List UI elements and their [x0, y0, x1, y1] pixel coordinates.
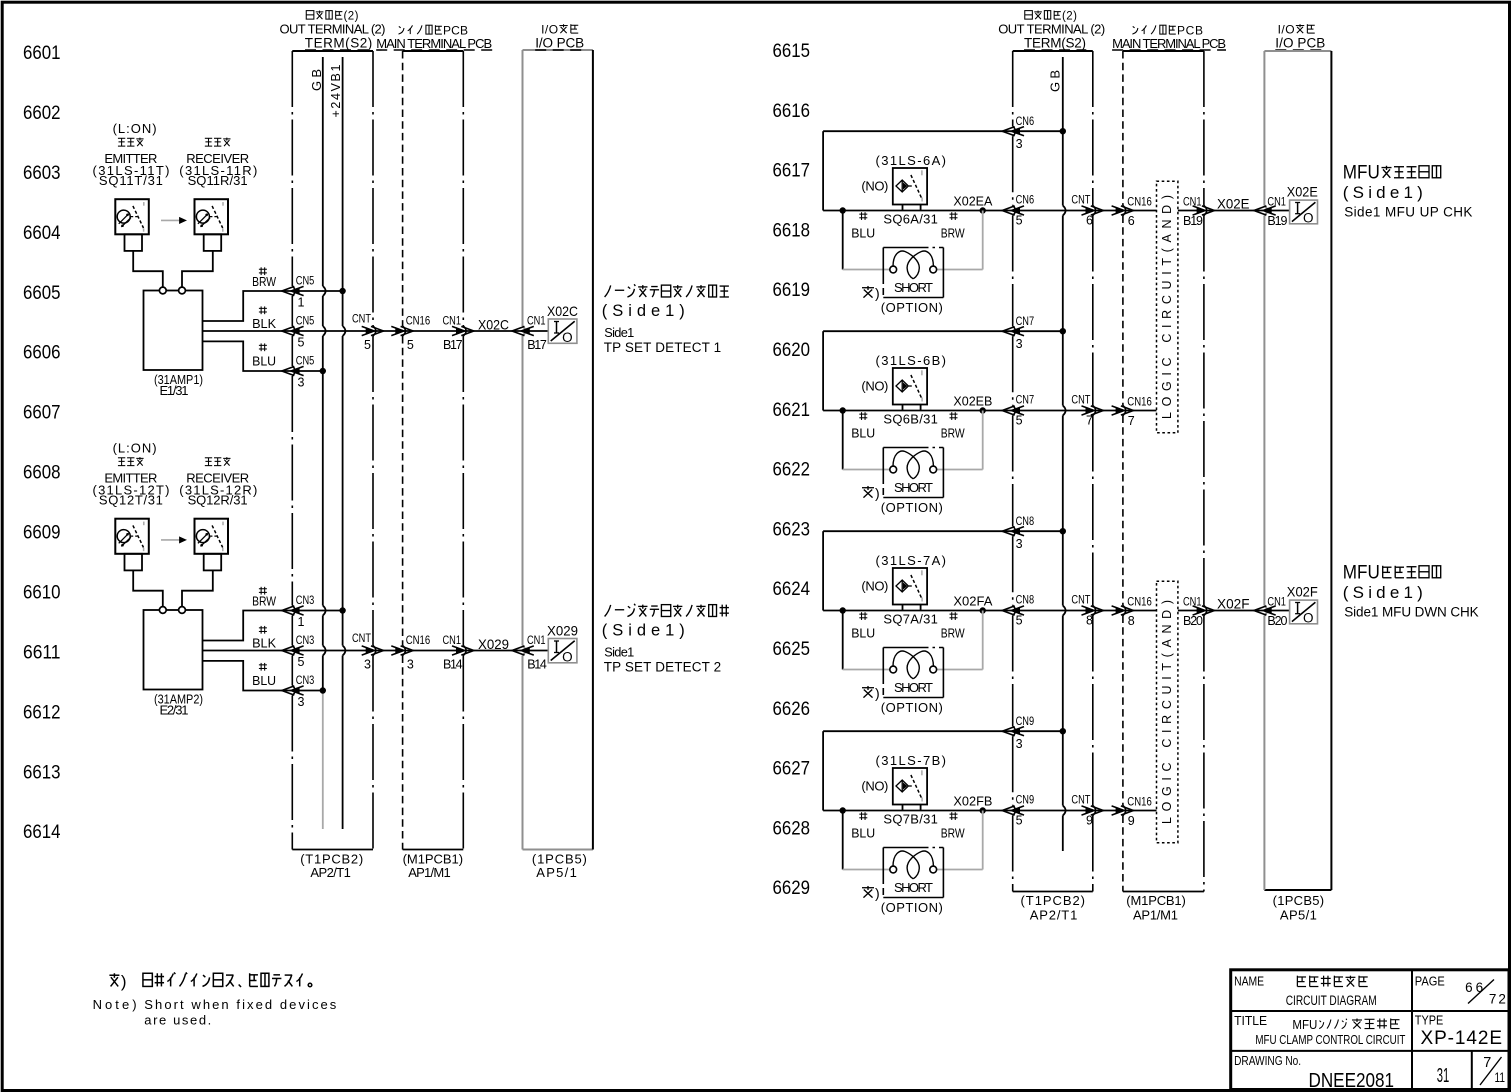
svg-text:SQ12T/31: SQ12T/31 — [99, 493, 163, 508]
svg-text:(31LS-6B): (31LS-6B) — [876, 353, 947, 368]
svg-text:CN16: CN16 — [1127, 195, 1152, 209]
svg-text:3: 3 — [298, 376, 305, 390]
svg-text:5: 5 — [407, 338, 414, 352]
svg-text:6622: 6622 — [773, 460, 811, 481]
svg-text:6618: 6618 — [773, 220, 811, 241]
svg-text:X02EB: X02EB — [953, 394, 992, 409]
svg-text:6616: 6616 — [773, 101, 811, 122]
svg-text:(Side1): (Side1) — [1343, 583, 1423, 602]
svg-text:Side1 MFU DWN CHK: Side1 MFU DWN CHK — [1344, 604, 1479, 619]
svg-text:7: 7 — [1483, 1055, 1491, 1071]
svg-text:SQ12R/31: SQ12R/31 — [188, 493, 248, 508]
svg-text:6615: 6615 — [773, 41, 811, 62]
svg-text:(OPTION): (OPTION) — [881, 900, 943, 915]
svg-text:5: 5 — [1016, 414, 1023, 428]
svg-text:B19: B19 — [1267, 214, 1287, 228]
svg-text:B17: B17 — [443, 338, 463, 352]
svg-text:6626: 6626 — [773, 699, 811, 720]
svg-text:NAME: NAME — [1234, 974, 1264, 988]
svg-text:3: 3 — [1016, 737, 1023, 751]
svg-text:): ) — [875, 485, 880, 501]
svg-text:MAIN TERMINAL PCB: MAIN TERMINAL PCB — [376, 36, 492, 51]
svg-text:BRW: BRW — [941, 625, 966, 640]
svg-text:CNT: CNT — [1071, 593, 1091, 607]
svg-text:X02FB: X02FB — [953, 794, 992, 809]
svg-text:B14: B14 — [443, 658, 463, 672]
svg-text:CN3: CN3 — [296, 673, 315, 687]
svg-text:(NO): (NO) — [861, 179, 888, 194]
svg-text:CN7: CN7 — [1016, 314, 1035, 328]
svg-text:B20: B20 — [1183, 614, 1203, 628]
svg-text:X02C: X02C — [547, 303, 578, 319]
svg-text:BLU: BLU — [851, 625, 875, 640]
svg-text:PAGE: PAGE — [1415, 974, 1445, 988]
svg-text:6605: 6605 — [23, 283, 61, 304]
svg-text:SHORT: SHORT — [894, 680, 933, 695]
svg-text:6617: 6617 — [773, 161, 811, 182]
svg-text:): ) — [875, 685, 880, 701]
svg-text:5: 5 — [298, 336, 305, 350]
svg-text:TITLE: TITLE — [1234, 1014, 1267, 1028]
svg-text:X02E: X02E — [1287, 184, 1318, 200]
svg-text:6604: 6604 — [23, 223, 61, 244]
svg-text:(L:ON): (L:ON) — [113, 121, 157, 136]
svg-text:MFU: MFU — [1343, 162, 1380, 183]
svg-text:6606: 6606 — [23, 343, 61, 364]
svg-text:SQ7B/31: SQ7B/31 — [883, 812, 938, 827]
svg-text:TYPE: TYPE — [1415, 1013, 1444, 1027]
svg-text:6625: 6625 — [773, 639, 811, 660]
svg-text:I/O PCB: I/O PCB — [1275, 36, 1325, 51]
svg-text:(M1PCB1): (M1PCB1) — [1126, 893, 1186, 908]
svg-text:OUT TERMINAL (2): OUT TERMINAL (2) — [998, 22, 1105, 37]
svg-text:MFU: MFU — [1343, 562, 1380, 583]
svg-text:CN16: CN16 — [1127, 795, 1152, 809]
svg-text:SQ6A/31: SQ6A/31 — [883, 212, 938, 227]
svg-text:3: 3 — [1016, 137, 1023, 151]
svg-text:SQ7A/31: SQ7A/31 — [883, 612, 938, 627]
svg-text:CN8: CN8 — [1016, 593, 1035, 607]
svg-text:BLU: BLU — [252, 673, 276, 688]
svg-text:B14: B14 — [527, 658, 547, 672]
svg-text:1: 1 — [298, 296, 305, 310]
svg-text:3: 3 — [407, 658, 414, 672]
svg-text:X029: X029 — [478, 636, 509, 652]
svg-text:BLU: BLU — [252, 354, 276, 369]
svg-text:MAIN TERMINAL PCB: MAIN TERMINAL PCB — [1112, 36, 1226, 51]
svg-text:6603: 6603 — [23, 163, 61, 184]
svg-text:CN7: CN7 — [1016, 393, 1035, 407]
svg-text:DNEE2081: DNEE2081 — [1309, 1070, 1395, 1092]
svg-text:CN5: CN5 — [296, 274, 315, 288]
svg-text:CN3: CN3 — [296, 593, 315, 607]
svg-text:AP1/M1: AP1/M1 — [1133, 907, 1178, 922]
svg-text:O: O — [1303, 610, 1314, 625]
svg-text:X02FA: X02FA — [953, 594, 992, 609]
svg-text:BRW: BRW — [252, 594, 277, 609]
svg-text:BLU: BLU — [851, 225, 875, 240]
svg-text:SHORT: SHORT — [894, 480, 933, 495]
svg-text:6614: 6614 — [23, 822, 61, 843]
svg-text:I/O PCB: I/O PCB — [535, 36, 584, 51]
svg-text:XP-142E: XP-142E — [1421, 1028, 1503, 1049]
svg-text:AP1/M1: AP1/M1 — [408, 865, 451, 880]
svg-text:6623: 6623 — [773, 519, 811, 540]
svg-text:6619: 6619 — [773, 280, 811, 301]
svg-text:SQ6B/31: SQ6B/31 — [883, 412, 938, 427]
svg-text:CN16: CN16 — [1127, 395, 1152, 409]
svg-text:AP5/1: AP5/1 — [536, 865, 577, 880]
svg-text:3: 3 — [1016, 537, 1023, 551]
svg-text:3: 3 — [1016, 337, 1023, 351]
svg-text:CN1: CN1 — [1183, 595, 1202, 609]
svg-text:B19: B19 — [1183, 214, 1203, 228]
svg-text:BRW: BRW — [941, 225, 966, 240]
svg-text:MFU: MFU — [1292, 1017, 1317, 1032]
svg-text:(31LS-7A): (31LS-7A) — [876, 553, 947, 568]
svg-text:5: 5 — [1016, 214, 1023, 228]
svg-text:6609: 6609 — [23, 523, 61, 544]
svg-text:5: 5 — [364, 338, 371, 352]
svg-text:CNT: CNT — [1071, 393, 1091, 407]
svg-text:CN1: CN1 — [1267, 195, 1286, 209]
svg-text:(OPTION): (OPTION) — [881, 700, 943, 715]
svg-text:X029: X029 — [547, 623, 578, 639]
svg-text:5: 5 — [1016, 814, 1023, 828]
svg-text:SQ11T/31: SQ11T/31 — [99, 173, 163, 188]
svg-text:6: 6 — [1086, 214, 1093, 228]
svg-text:CN3: CN3 — [296, 633, 315, 647]
svg-text:6601: 6601 — [23, 43, 61, 64]
svg-text:BLK: BLK — [252, 636, 276, 651]
svg-text:Side1: Side1 — [604, 645, 634, 660]
svg-text:DRAWING No.: DRAWING No. — [1234, 1054, 1301, 1068]
svg-text:9: 9 — [1128, 814, 1135, 828]
svg-text:SHORT: SHORT — [894, 880, 933, 895]
svg-text:6611: 6611 — [23, 642, 61, 663]
svg-text:CNT: CNT — [1071, 793, 1091, 807]
svg-text:(31LS-6A): (31LS-6A) — [876, 153, 947, 168]
svg-text:11: 11 — [1495, 1070, 1506, 1085]
svg-text:(Side1): (Side1) — [602, 622, 685, 640]
svg-text:BLU: BLU — [851, 425, 875, 440]
svg-text:): ) — [875, 285, 880, 301]
svg-text:(T1PCB2): (T1PCB2) — [1021, 893, 1086, 908]
svg-text:B20: B20 — [1267, 614, 1287, 628]
svg-text:AP2/T1: AP2/T1 — [310, 865, 351, 880]
svg-text:(Side1): (Side1) — [1343, 183, 1423, 202]
svg-text:1: 1 — [298, 615, 305, 629]
svg-text:6629: 6629 — [773, 878, 811, 899]
svg-text:72: 72 — [1489, 991, 1506, 1006]
svg-text:I/O: I/O — [1278, 23, 1295, 37]
svg-text:6621: 6621 — [773, 400, 811, 421]
svg-text:6608: 6608 — [23, 463, 61, 484]
svg-text:X02EA: X02EA — [953, 194, 992, 209]
svg-text:6: 6 — [1128, 214, 1135, 228]
svg-text:CN1: CN1 — [1267, 595, 1286, 609]
svg-text:): ) — [875, 885, 880, 901]
svg-text:X02E: X02E — [1217, 196, 1250, 212]
svg-text:CN16: CN16 — [406, 633, 431, 647]
svg-text:6602: 6602 — [23, 103, 61, 124]
svg-text:(31LS-7B): (31LS-7B) — [876, 753, 947, 768]
svg-text:BLU: BLU — [851, 825, 875, 840]
svg-text:(OPTION): (OPTION) — [881, 500, 943, 515]
svg-text:6628: 6628 — [773, 818, 811, 839]
svg-text:(NO): (NO) — [861, 379, 888, 394]
svg-text:6607: 6607 — [23, 403, 61, 424]
svg-text:(L:ON): (L:ON) — [113, 440, 157, 455]
svg-text:6613: 6613 — [23, 762, 61, 783]
svg-text:9: 9 — [1086, 814, 1093, 828]
svg-text:CN1: CN1 — [443, 633, 462, 647]
svg-text:MFU CLAMP CONTROL CIRCUIT: MFU CLAMP CONTROL CIRCUIT — [1255, 1032, 1405, 1047]
svg-text:O: O — [1303, 210, 1314, 225]
svg-text:O: O — [562, 650, 573, 665]
svg-text:CN9: CN9 — [1016, 714, 1035, 728]
svg-text:8: 8 — [1128, 614, 1135, 628]
svg-text:CN8: CN8 — [1016, 514, 1035, 528]
svg-text:Side1 MFU UP CHK: Side1 MFU UP CHK — [1344, 204, 1472, 219]
svg-text:(1PCB5): (1PCB5) — [1273, 893, 1325, 908]
svg-text:BRW: BRW — [252, 274, 277, 289]
svg-text:7: 7 — [1128, 414, 1135, 428]
svg-text:BRW: BRW — [941, 425, 966, 440]
svg-text:5: 5 — [1016, 614, 1023, 628]
svg-text:): ) — [121, 972, 127, 991]
svg-text:Side1: Side1 — [604, 325, 634, 340]
svg-text:6610: 6610 — [23, 583, 61, 604]
svg-text:AP5/1: AP5/1 — [1280, 907, 1317, 922]
svg-text:(NO): (NO) — [861, 779, 888, 794]
svg-text:B17: B17 — [527, 338, 547, 352]
svg-text:6627: 6627 — [773, 759, 811, 780]
svg-text:CNT: CNT — [352, 312, 372, 326]
svg-text:SHORT: SHORT — [894, 280, 933, 295]
svg-text:5: 5 — [298, 655, 305, 669]
svg-text:CN16: CN16 — [406, 314, 431, 328]
svg-text:OUT TERMINAL (2): OUT TERMINAL (2) — [280, 22, 386, 37]
svg-text:(NO): (NO) — [861, 579, 888, 594]
svg-text:BLK: BLK — [252, 316, 276, 331]
svg-text:CNT: CNT — [352, 631, 372, 645]
svg-text:3: 3 — [364, 658, 371, 672]
svg-text:CN1: CN1 — [527, 633, 546, 647]
svg-text:CNT: CNT — [1071, 193, 1091, 207]
svg-text:+24VB1: +24VB1 — [329, 64, 343, 117]
svg-text:6620: 6620 — [773, 340, 811, 361]
svg-text:TP SET DETECT 2: TP SET DETECT 2 — [604, 659, 722, 674]
svg-text:TERM(S2): TERM(S2) — [1024, 36, 1086, 51]
svg-text:TP SET DETECT 1: TP SET DETECT 1 — [604, 340, 722, 355]
svg-text:6624: 6624 — [773, 579, 811, 600]
svg-text:I/O: I/O — [541, 23, 558, 37]
svg-text:CN9: CN9 — [1016, 793, 1035, 807]
svg-text:8: 8 — [1086, 614, 1093, 628]
svg-text:O: O — [562, 330, 573, 345]
svg-text:BRW: BRW — [941, 825, 966, 840]
svg-text:CN5: CN5 — [296, 354, 315, 368]
svg-text:6612: 6612 — [23, 702, 61, 723]
svg-text:AP2/T1: AP2/T1 — [1030, 907, 1078, 922]
svg-text:(Side1): (Side1) — [602, 302, 685, 320]
svg-text:(OPTION): (OPTION) — [881, 300, 943, 315]
svg-text:3: 3 — [298, 695, 305, 709]
svg-text:E2/31: E2/31 — [160, 702, 189, 717]
svg-text:CN1: CN1 — [1183, 195, 1202, 209]
svg-text:31: 31 — [1437, 1065, 1450, 1087]
svg-text:X02C: X02C — [478, 317, 509, 333]
svg-text:X02F: X02F — [1287, 584, 1318, 600]
svg-text:CN1: CN1 — [443, 314, 462, 328]
svg-text:CN16: CN16 — [1127, 595, 1152, 609]
svg-text:SQ11R/31: SQ11R/31 — [188, 173, 248, 188]
svg-text:are used.: are used. — [144, 1013, 211, 1028]
svg-text:CN1: CN1 — [527, 314, 546, 328]
svg-text:E1/31: E1/31 — [160, 383, 189, 398]
svg-text:CN6: CN6 — [1016, 114, 1035, 128]
svg-text:CIRCUIT DIAGRAM: CIRCUIT DIAGRAM — [1286, 993, 1377, 1008]
svg-text:TERM(S2): TERM(S2) — [305, 36, 373, 51]
svg-text:CN6: CN6 — [1016, 193, 1035, 207]
svg-text:CN5: CN5 — [296, 314, 315, 328]
svg-text:7: 7 — [1086, 414, 1093, 428]
svg-text:X02F: X02F — [1217, 596, 1250, 612]
